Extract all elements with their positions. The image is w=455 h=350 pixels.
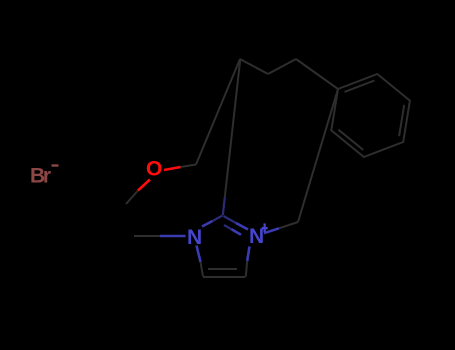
bond O to CH2 (V1), red half [164, 167, 181, 170]
chain bond T3 to benzene vertex B [296, 59, 338, 89]
bond C2 to T1 (long bridge), carbon part [225, 59, 241, 197]
bond O to methyl CH3, red half [138, 180, 150, 191]
ring bond N1-C2 nitrogen half [202, 221, 213, 227]
bond O to CH2 (V1), carbon half [181, 165, 197, 168]
N1 methyl bond, carbon half [134, 235, 160, 237]
ring bond N1-C2 carbon half [213, 216, 223, 222]
bromide counter-ion Br- [30, 164, 59, 187]
benzene ring [331, 74, 410, 157]
ring double bond C2=N3 inner line nitrogen half [232, 229, 242, 234]
bond O to methyl CH3, carbon half [126, 191, 138, 205]
ring bond N1-C5 carbon half [201, 262, 204, 277]
ring bond N1-C5 nitrogen half [197, 246, 201, 263]
ring double bond C2=N3 inner line carbon half [224, 225, 232, 229]
ring bond N3-C4 carbon half [246, 261, 247, 277]
chain bond T1-T2 [240, 59, 268, 74]
svg-text:O: O [146, 158, 162, 181]
bond P1 to N3, carbon half [279, 222, 298, 228]
ring double bond C2=N3 main line nitrogen half [236, 223, 248, 230]
bond C2 to T1 (long bridge), near-ring part [223, 197, 225, 215]
ring bond N3-C4 nitrogen half [247, 247, 249, 262]
bond P1 to N3, nitrogen half [264, 228, 279, 233]
ring double bond C4=C5 inner line [208, 268, 237, 270]
plus charge [262, 223, 268, 232]
N1 methyl bond, nitrogen half [160, 235, 186, 238]
long chain bond L2: benzene vertex B down to P1 [298, 89, 338, 222]
ring bond C4-C5 [203, 276, 246, 278]
svg-text:Br: Br [30, 165, 51, 188]
long chain bond L1: V1 up to T1 [196, 59, 240, 165]
chain bond T2-T3 [268, 59, 296, 74]
ring double bond C2=N3 main line carbon half [224, 216, 237, 223]
svg-text:N: N [187, 226, 202, 249]
